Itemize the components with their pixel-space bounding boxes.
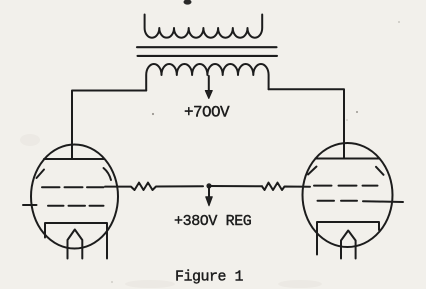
+380V REG tap lead <box>208 186 210 198</box>
tube V1 cathode bracket <box>45 223 107 259</box>
transformer T1 primary winding <box>145 15 263 38</box>
tube V2 heater filament <box>341 231 356 259</box>
tube V2 grid 1 dashes <box>314 185 378 187</box>
tube V1 grid 1 dashes <box>42 186 104 188</box>
tube V2 envelope <box>303 143 393 247</box>
+380V REG arrowhead <box>206 197 213 206</box>
center tap lead of secondary <box>208 76 210 92</box>
transformer T1 secondary winding <box>146 64 268 91</box>
tube V1 grid 2 external stub <box>23 204 37 206</box>
scan specks <box>111 21 400 283</box>
tube V1 heater filament <box>68 230 83 259</box>
svg-text:Figure 1: Figure 1 <box>175 269 244 286</box>
wire: junction to R2 <box>209 185 262 187</box>
wire: secondary right end to V2 plate <box>269 89 344 158</box>
transformer T1 core line 1 <box>137 46 277 48</box>
tube V1 beam plate left angled dash <box>37 170 45 179</box>
resistor R1 <box>105 183 203 190</box>
tube V2 beam plate left angled dash <box>308 167 317 175</box>
resistor R2 <box>262 183 310 190</box>
svg-text:+7OOV: +7OOV <box>184 104 230 122</box>
transformer T1 core line 2 <box>138 55 278 57</box>
tube V1 plate <box>44 158 104 160</box>
wire: secondary left end to V1 plate <box>72 91 146 159</box>
tube V1 grid 2 dashes <box>48 205 104 207</box>
speck (torn char) at top edge <box>184 0 192 5</box>
tube V1 envelope <box>31 145 118 249</box>
tube V1 beam plate right angled dash <box>104 168 112 180</box>
svg-text:+38OV REG: +38OV REG <box>174 213 252 230</box>
tube V2 cathode bracket <box>317 222 379 255</box>
node junction dot <box>206 183 211 188</box>
tube V2 grid 2 dash with external stub <box>363 200 403 203</box>
tube V2 beam plate right angled dash <box>376 167 384 175</box>
tube V2 plate <box>316 158 380 160</box>
scan smudges <box>20 134 322 288</box>
tube V2 grid 2 dashes <box>318 200 358 202</box>
center tap arrowhead <box>205 91 212 99</box>
